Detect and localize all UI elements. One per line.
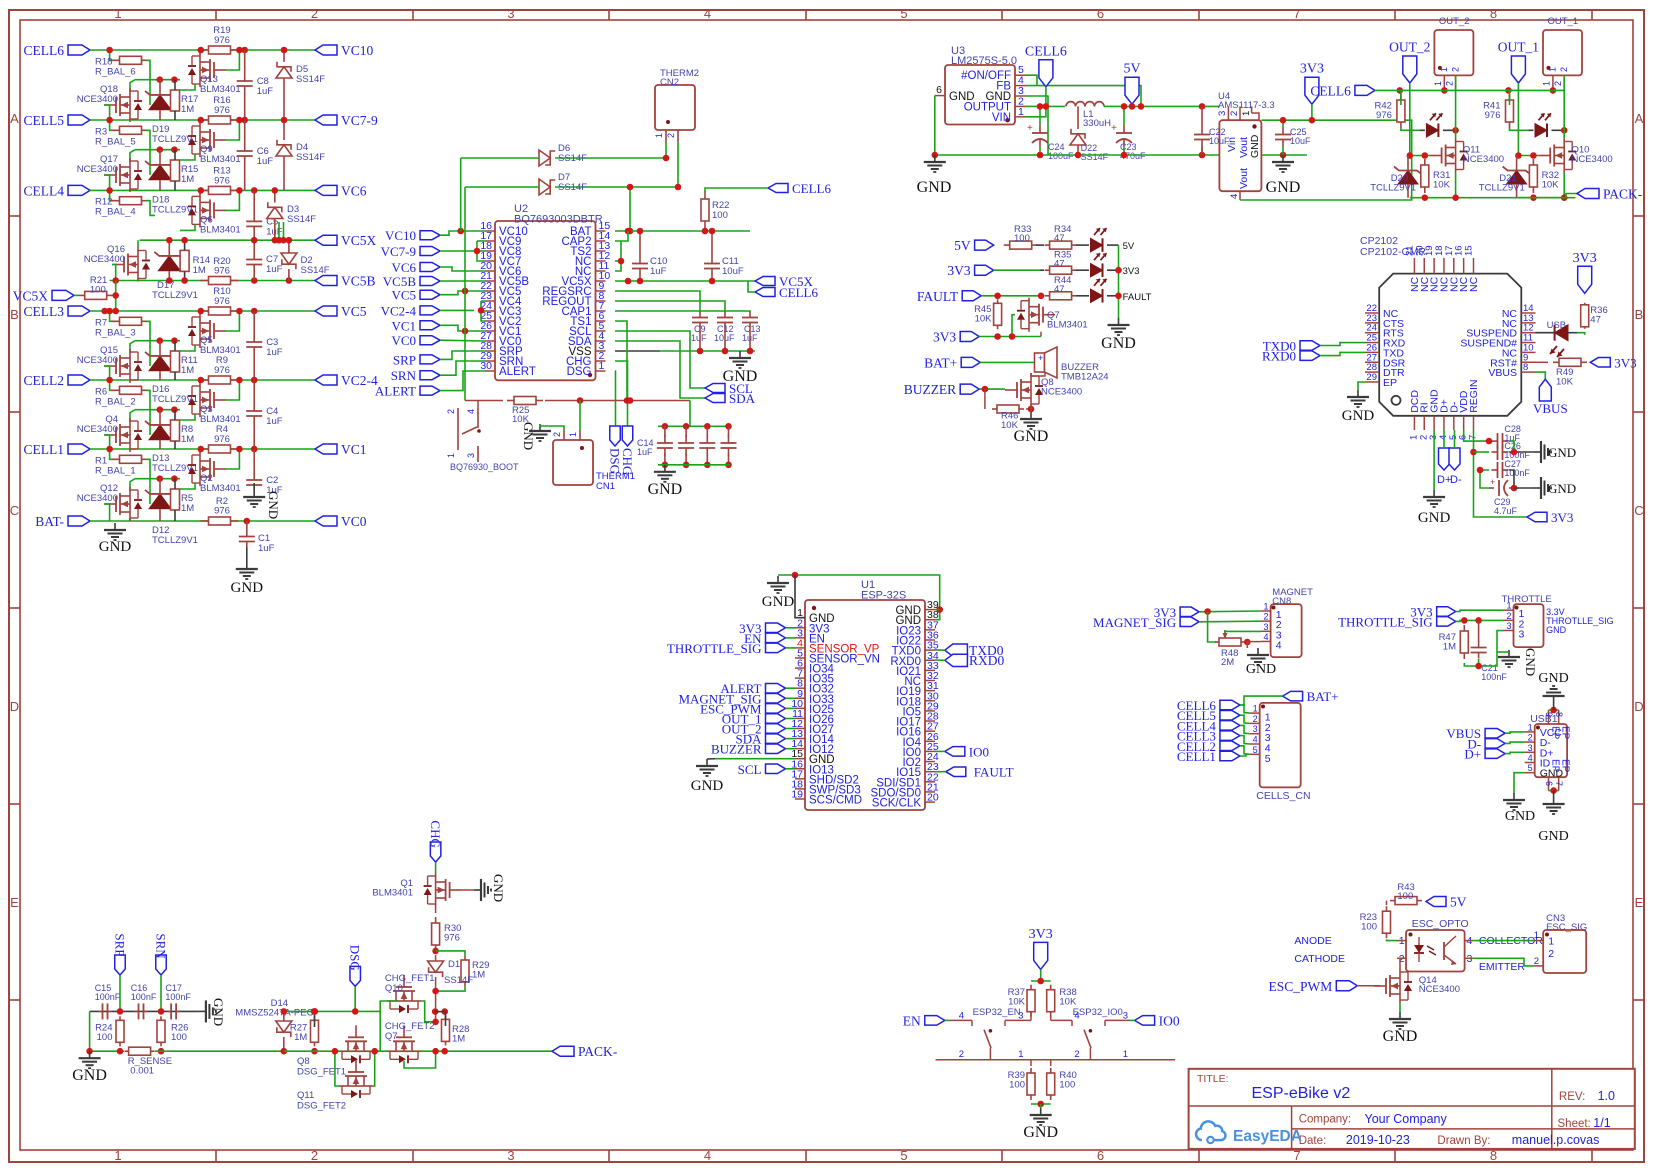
svg-text:3: 3 — [1018, 1011, 1023, 1022]
svg-text:R_BAL_4: R_BAL_4 — [95, 207, 136, 218]
svg-text:+: + — [1490, 477, 1495, 487]
wire — [226, 449, 239, 469]
ground — [1503, 793, 1535, 824]
junction — [627, 397, 634, 404]
pin 9 U1 IO33 — [795, 688, 834, 706]
svg-text:1uF: 1uF — [650, 266, 667, 277]
wire — [1464, 652, 1497, 666]
pin 5 U3 #ON/OFF — [961, 64, 1025, 82]
svg-text:2M: 2M — [1221, 657, 1234, 668]
svg-text:0.001: 0.001 — [130, 1066, 154, 1077]
zener D14 — [235, 998, 313, 1051]
svg-text:EP: EP — [1383, 377, 1397, 389]
LED LED-3V3 — [1076, 253, 1140, 277]
frame column tick bottom — [1198, 1150, 1200, 1162]
junction — [181, 277, 188, 284]
junction — [251, 237, 258, 244]
net flag VC5 — [315, 304, 367, 319]
svg-text:MAGNET_SIG: MAGNET_SIG — [1093, 615, 1176, 630]
pin 13 U1 IO14 — [791, 728, 834, 746]
wire — [246, 521, 248, 531]
svg-text:CELL1: CELL1 — [24, 442, 65, 457]
svg-text:20: 20 — [927, 792, 939, 804]
wire — [711, 231, 713, 258]
svg-text:ALERT: ALERT — [499, 366, 536, 378]
wire — [936, 1059, 1175, 1061]
wire — [1563, 75, 1565, 130]
wire — [146, 390, 150, 435]
wire — [1455, 130, 1457, 138]
junction — [198, 377, 205, 384]
svg-text:100nF: 100nF — [1504, 468, 1530, 478]
wire — [1505, 752, 1525, 753]
junction — [198, 117, 205, 124]
junction — [1511, 485, 1518, 492]
wire — [440, 351, 485, 359]
wire — [440, 309, 474, 311]
ground — [1101, 318, 1136, 352]
junction — [1121, 152, 1128, 159]
capacitor C24 — [1027, 123, 1074, 161]
pin 23 CP2102 CTS — [1365, 313, 1404, 330]
junction — [276, 237, 283, 244]
junction — [241, 117, 248, 124]
wire — [1454, 430, 1456, 448]
zener D16 — [145, 341, 198, 405]
resistor R39 — [1008, 1060, 1035, 1100]
wire — [477, 250, 485, 252]
svg-text:100: 100 — [171, 1032, 187, 1043]
net flag MAGNET_SIG u1 — [678, 691, 785, 706]
pin 14 CP2102 NC — [1502, 303, 1536, 320]
svg-text:GND: GND — [1546, 625, 1567, 635]
pin 29 U2 SRN — [480, 350, 523, 368]
transistor Q4 — [77, 414, 142, 452]
ground — [1534, 441, 1576, 463]
title block line1 — [1189, 1105, 1635, 1107]
svg-text:SS14F: SS14F — [558, 182, 587, 193]
svg-text:GND: GND — [762, 594, 795, 610]
wire — [436, 951, 465, 956]
pin 28 U2 SRP — [480, 340, 523, 358]
wire — [115, 281, 117, 312]
pin 24 U1 IO2 — [902, 751, 938, 769]
junction — [936, 606, 943, 613]
wire — [658, 425, 730, 427]
wire — [180, 224, 195, 230]
wire — [129, 518, 131, 521]
buzzer BUZZER TMB12A24 — [1035, 347, 1109, 383]
junction — [251, 377, 258, 384]
svg-text:E: E — [10, 895, 19, 910]
svg-text:1: 1 — [1548, 936, 1554, 948]
svg-text:GND: GND — [1548, 445, 1576, 460]
pin 3 CN8 — [1261, 622, 1282, 642]
wire — [1505, 732, 1525, 733]
svg-text:GND: GND — [1418, 510, 1451, 526]
svg-text:A: A — [1635, 111, 1644, 126]
junction — [1505, 87, 1512, 94]
pin 18 U1 SWP/SD3 — [791, 778, 860, 796]
svg-text:1uF: 1uF — [258, 543, 275, 554]
svg-text:CELL2: CELL2 — [24, 373, 65, 388]
wire — [786, 627, 796, 629]
wire — [1563, 173, 1565, 198]
pin 17 U1 SHD/SD2 — [791, 768, 859, 786]
wire — [135, 79, 180, 81]
svg-text:GND: GND — [1342, 408, 1375, 424]
svg-text:VC7-9: VC7-9 — [341, 113, 378, 128]
junction — [251, 187, 258, 194]
net flag CELL6 — [24, 43, 91, 58]
svg-text:1uF: 1uF — [257, 156, 274, 167]
pin 18 CP2102 NC top — [1434, 245, 1451, 292]
wire — [1040, 1104, 1042, 1108]
pin 8 CP2102 VBUS — [1488, 362, 1535, 379]
pin 1 USB1 VCC — [1525, 722, 1563, 739]
net flag BUZZER u1 — [711, 742, 786, 757]
pin 11 CP2102 SUSPEND# — [1460, 333, 1535, 350]
svg-text:CN8: CN8 — [1272, 596, 1291, 607]
svg-text:1.0: 1.0 — [1598, 1089, 1615, 1103]
wire — [935, 649, 945, 651]
wire — [481, 301, 485, 321]
pin 20 U1 SCK/CLK — [872, 792, 939, 810]
label REV: — [1559, 1089, 1615, 1103]
svg-text:4: 4 — [1074, 1011, 1079, 1022]
wire — [199, 449, 201, 452]
pin 5 U2 SCL — [569, 320, 605, 338]
svg-text:SS14F: SS14F — [1081, 152, 1109, 162]
net flag CELL3 cells — [1177, 729, 1240, 744]
svg-text:R_BAL_5: R_BAL_5 — [95, 136, 136, 147]
wire — [1497, 631, 1504, 652]
pin 21 CP2102 NC top — [1404, 245, 1421, 292]
resistor R42 — [1374, 94, 1404, 128]
wire — [979, 336, 1041, 338]
svg-text:Vin: Vin — [1226, 137, 1238, 152]
ground — [1534, 477, 1576, 499]
wire — [615, 241, 621, 271]
pin 13 CP2102 NC — [1502, 313, 1536, 330]
junction — [1199, 152, 1206, 159]
capacitor C25 — [1275, 127, 1311, 147]
net flag EN u1 — [744, 631, 785, 646]
resistor R37 — [1008, 985, 1035, 1017]
wire — [90, 379, 315, 381]
wire — [1455, 173, 1457, 198]
pin 3 U1 EN — [795, 627, 825, 645]
junction — [106, 187, 113, 194]
frame column label 3 — [507, 6, 514, 1163]
resistor R8 — [171, 410, 195, 449]
wire — [135, 409, 180, 411]
pin 6 U3 GND — [935, 84, 975, 103]
pin 29 CP2102 EP — [1365, 372, 1397, 389]
net flag VC0 — [391, 333, 440, 348]
pin 35 U1 TXD0 — [892, 640, 939, 658]
junction — [106, 446, 113, 453]
svg-text:ESC_PWM: ESC_PWM — [1269, 979, 1333, 994]
svg-text:DSG_FET2: DSG_FET2 — [297, 1101, 346, 1112]
frame column tick top — [1001, 10, 1003, 20]
svg-text:5: 5 — [900, 1148, 907, 1163]
wire — [137, 281, 139, 282]
junction — [994, 333, 1001, 340]
svg-text:VC2-4: VC2-4 — [341, 373, 378, 388]
junction — [462, 288, 469, 295]
pin 10 U2 VC5X — [561, 270, 610, 288]
svg-text:GND: GND — [1538, 829, 1568, 844]
label CATHODE — [1294, 953, 1345, 965]
svg-text:GND: GND — [1523, 648, 1538, 676]
wire — [658, 464, 730, 466]
svg-text:THROTTLE_SIG: THROTTLE_SIG — [667, 641, 762, 656]
svg-text:Drawn By:: Drawn By: — [1437, 1135, 1490, 1147]
ground — [1266, 155, 1301, 196]
svg-text:BLM3401: BLM3401 — [200, 224, 241, 235]
pin 15 U2 BAT — [570, 220, 610, 238]
pin 20 U2 VC6 — [480, 260, 521, 278]
junction — [1121, 103, 1128, 110]
pin 27 U1 IO16 — [896, 721, 939, 739]
wire — [1474, 430, 1528, 517]
wire — [435, 862, 437, 873]
svg-text:330uH: 330uH — [1083, 118, 1111, 129]
pin 11 U1 IO26 — [792, 708, 834, 726]
svg-text:GND: GND — [266, 491, 281, 519]
svg-text:2: 2 — [552, 432, 562, 437]
svg-text:3: 3 — [1506, 621, 1511, 631]
resistor R13 — [201, 165, 239, 194]
net flag VC10 — [315, 43, 374, 58]
junction — [157, 475, 164, 482]
svg-text:2: 2 — [1506, 611, 1511, 621]
wire — [1240, 725, 1250, 733]
svg-text:47: 47 — [1054, 233, 1065, 244]
resistor R1 — [95, 455, 150, 476]
junction — [1309, 117, 1316, 124]
wire — [199, 120, 201, 123]
net flag 3V3 leds — [947, 263, 993, 278]
wire — [1025, 96, 1048, 155]
pin 21 U1 SDO/SD0 — [871, 781, 939, 799]
net flag ESC_PWM esc — [1269, 979, 1358, 994]
resistor R43 — [1390, 882, 1422, 905]
svg-text:CELL1: CELL1 — [1177, 749, 1216, 764]
pin 16 U1 IO13 — [791, 758, 834, 776]
junction — [198, 187, 205, 194]
junction — [281, 1008, 288, 1015]
svg-text:D: D — [10, 699, 19, 714]
junction — [272, 237, 279, 244]
pin 14 U1 IO12 — [791, 738, 834, 756]
pin 23 U1 IO15 — [896, 761, 939, 779]
pin 30 U2 ALERT — [480, 360, 536, 378]
svg-text:REGIN: REGIN — [1468, 380, 1480, 413]
svg-text:GND: GND — [1023, 1124, 1058, 1141]
svg-text:manuel.p.covas: manuel.p.covas — [1512, 1133, 1600, 1147]
net flag SCL — [705, 381, 753, 396]
transistor Q10 — [1538, 139, 1613, 173]
svg-text:976: 976 — [214, 506, 230, 517]
svg-text:2: 2 — [446, 409, 456, 414]
pin 37 U1 IO23 — [896, 619, 939, 637]
wire — [130, 80, 135, 92]
svg-text:1: 1 — [568, 432, 578, 437]
svg-text:2: 2 — [1528, 733, 1533, 743]
junction — [627, 184, 634, 191]
connector CELLS_CN — [1256, 703, 1310, 802]
svg-text:AMS1117-3.3: AMS1117-3.3 — [1218, 100, 1275, 111]
svg-text:47: 47 — [1054, 284, 1065, 295]
svg-text:4: 4 — [466, 409, 476, 414]
svg-text:NCE3400: NCE3400 — [77, 355, 118, 366]
wire — [984, 389, 986, 409]
svg-text:3V3: 3V3 — [947, 263, 970, 278]
junction — [157, 76, 164, 83]
junction — [1129, 103, 1136, 110]
junction — [1043, 103, 1050, 110]
frame column tick top — [1198, 10, 1200, 20]
wire — [146, 130, 150, 175]
pin 6 USB1 EP b — [1544, 759, 1561, 791]
net flag MAGNET_SIG — [1093, 615, 1199, 630]
wire — [615, 331, 705, 388]
switch ESP32_EN — [950, 1007, 1031, 1060]
wire — [665, 142, 667, 158]
svg-text:Q10: Q10 — [385, 983, 403, 994]
net flag SRP — [112, 933, 127, 975]
zener D22 — [1070, 106, 1109, 162]
junction — [577, 397, 584, 404]
junction — [106, 377, 113, 384]
transistor Q2 — [188, 452, 241, 494]
svg-text:R_BAL_1: R_BAL_1 — [95, 465, 136, 476]
frame column tick bottom — [215, 1150, 217, 1162]
junction — [101, 308, 108, 315]
svg-text:1: 1 — [1439, 67, 1449, 72]
resistor R4 — [201, 424, 239, 453]
svg-text:VC5B: VC5B — [341, 274, 376, 289]
wire — [615, 361, 628, 426]
wire — [253, 240, 255, 254]
pin 22 U1 SDI/SD1 — [876, 771, 939, 789]
svg-text:GND: GND — [1505, 809, 1535, 824]
net flag VBUS cp — [1533, 379, 1568, 416]
ground — [1498, 648, 1538, 676]
wire — [1514, 487, 1534, 489]
svg-text:TCLLZ9V1: TCLLZ9V1 — [152, 290, 198, 301]
wire — [130, 341, 135, 353]
pin 9 U2 REGSRC — [542, 280, 605, 298]
svg-text:SCL: SCL — [738, 762, 762, 777]
transistor Q1 — [372, 873, 461, 907]
resistor R16 — [201, 95, 239, 124]
pin 4 U2 SDA — [568, 330, 606, 348]
wire — [278, 222, 280, 240]
svg-text:NCE3400: NCE3400 — [1419, 984, 1460, 995]
junction — [1422, 194, 1429, 201]
junction — [432, 1008, 439, 1015]
svg-text:6: 6 — [936, 84, 942, 96]
resistor R32 — [1529, 159, 1559, 193]
net flag VC2-4 — [381, 303, 440, 318]
wire — [253, 352, 255, 380]
net flag VC5B — [315, 274, 376, 289]
svg-text:4: 4 — [1229, 194, 1240, 199]
wire — [1026, 408, 1031, 410]
svg-text:BQ76930_BOOT: BQ76930_BOOT — [450, 462, 519, 472]
wire — [629, 187, 631, 231]
junction — [1037, 103, 1044, 110]
wire — [1467, 194, 1577, 198]
pin 17 CP2102 NC top — [1444, 245, 1461, 292]
svg-text:4: 4 — [1528, 753, 1533, 763]
wire — [705, 188, 768, 192]
diode D1 — [428, 959, 474, 986]
junction — [1475, 663, 1482, 670]
ground — [1383, 1012, 1418, 1045]
svg-text:VC5X: VC5X — [341, 233, 377, 248]
ground — [723, 351, 758, 385]
resistor R23 — [1360, 906, 1391, 938]
wire — [786, 768, 796, 770]
resistor R9 — [201, 355, 239, 384]
frame column tick top — [1394, 10, 1396, 20]
junction — [236, 187, 243, 194]
junction — [312, 1008, 319, 1015]
wire — [1025, 86, 1141, 107]
pin 2 CN8 — [1261, 612, 1282, 632]
wire — [284, 1010, 380, 1012]
wire — [104, 175, 110, 190]
svg-text:8: 8 — [1554, 712, 1564, 717]
switch ESP32_IO0 — [1051, 1007, 1130, 1060]
resistor R40 — [1047, 1060, 1077, 1100]
wire — [1240, 736, 1250, 744]
frame column tick top — [805, 10, 807, 20]
wire — [1030, 404, 1032, 412]
wire — [1549, 790, 1559, 792]
svg-text:MMSZ5247A-PEC: MMSZ5247A-PEC — [235, 1008, 313, 1019]
pin 12 CP2102 SUSPEND — [1466, 323, 1535, 340]
junction — [236, 47, 243, 54]
svg-text:1: 1 — [114, 1148, 121, 1163]
wire — [90, 520, 315, 522]
wire — [1509, 470, 1514, 488]
logo EasyEDA — [1196, 1121, 1302, 1145]
net flag SRP — [393, 352, 440, 367]
wire — [1031, 1103, 1051, 1105]
junction — [236, 308, 243, 315]
ground — [917, 155, 952, 196]
wire — [1039, 147, 1041, 155]
pin 7 U1 IO35 — [795, 668, 834, 686]
svg-text:VC6: VC6 — [391, 260, 416, 275]
junction — [171, 76, 178, 83]
wire — [1320, 343, 1365, 346]
svg-text:3V3: 3V3 — [1573, 251, 1597, 266]
svg-text:+: + — [1027, 123, 1033, 134]
junction — [1452, 194, 1459, 201]
pin 4 CP2102 D+ — [1438, 399, 1451, 440]
svg-text:1: 1 — [446, 453, 456, 458]
wire — [1478, 659, 1480, 666]
net flag ESC_PWM u1 — [700, 701, 785, 716]
LED LED-5V — [1076, 228, 1135, 252]
pin 7 USB1 EP b — [1554, 759, 1571, 791]
